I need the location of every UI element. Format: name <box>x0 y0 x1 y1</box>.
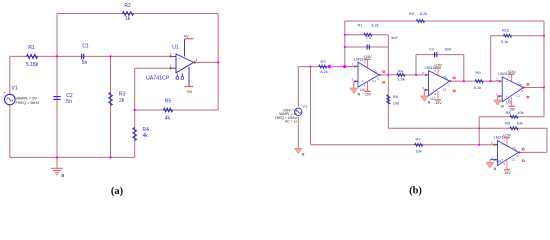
svg-text:C1: C1 <box>512 157 516 161</box>
svg-text:U1: U1 <box>172 45 179 51</box>
svg-text:5nF: 5nF <box>391 35 398 40</box>
svg-text:-15V: -15V <box>508 107 516 111</box>
svg-text:5n: 5n <box>82 60 88 66</box>
svg-text:10k: 10k <box>517 110 523 115</box>
svg-text:+15V: +15V <box>434 64 443 68</box>
svg-text:C2: C2 <box>66 93 73 99</box>
svg-text:C1: C1 <box>443 88 447 92</box>
svg-text:O: O <box>377 76 379 80</box>
svg-text:R9: R9 <box>476 70 481 75</box>
svg-text:(b): (b) <box>409 186 422 197</box>
svg-text:UA741CP: UA741CP <box>146 75 170 81</box>
svg-text:10k: 10k <box>393 100 399 105</box>
svg-text:R5: R5 <box>165 98 172 104</box>
svg-text:5.1k: 5.1k <box>474 85 481 90</box>
svg-text:R4: R4 <box>143 127 150 133</box>
svg-text:2k: 2k <box>119 98 125 104</box>
svg-text:8.2k: 8.2k <box>371 22 378 27</box>
svg-text:5.18k: 5.18k <box>26 62 39 68</box>
svg-text:5nF: 5nF <box>445 47 452 52</box>
svg-text:C1: C1 <box>516 94 520 98</box>
svg-text:R4: R4 <box>398 69 404 74</box>
svg-text:C2: C2 <box>512 146 516 150</box>
svg-text:AC = 1v: AC = 1v <box>285 120 297 124</box>
svg-text:9V: 9V <box>184 34 189 39</box>
svg-text:+15V: +15V <box>363 55 372 59</box>
svg-text:R2: R2 <box>124 3 131 9</box>
svg-text:8.2k: 8.2k <box>420 11 427 16</box>
svg-text:C2: C2 <box>443 75 447 79</box>
svg-text:8.2k: 8.2k <box>320 69 327 74</box>
svg-text:V1: V1 <box>12 85 18 91</box>
svg-text:-15V: -15V <box>503 171 511 175</box>
svg-text:5.1k: 5.1k <box>501 39 508 44</box>
svg-text:10k: 10k <box>415 149 421 154</box>
svg-text:O: O <box>447 83 449 87</box>
svg-text:-15V: -15V <box>434 101 442 105</box>
svg-text:O: O <box>521 89 523 93</box>
svg-text:R10: R10 <box>502 28 510 33</box>
svg-text:-9V: -9V <box>186 89 193 94</box>
svg-text:R1: R1 <box>358 22 363 27</box>
svg-text:C1: C1 <box>366 35 371 40</box>
svg-text:V1: V1 <box>303 104 308 109</box>
svg-text:R6: R6 <box>393 94 398 99</box>
svg-text:R3: R3 <box>321 59 326 64</box>
svg-text:R1: R1 <box>28 45 35 51</box>
svg-text:1k: 1k <box>125 16 131 22</box>
svg-text:4k: 4k <box>165 116 171 122</box>
svg-text:C2: C2 <box>429 47 434 52</box>
svg-text:C1: C1 <box>372 79 376 83</box>
svg-text:C2: C2 <box>516 81 520 85</box>
svg-text:(a): (a) <box>111 186 124 197</box>
svg-text:4k: 4k <box>143 133 149 139</box>
svg-text:C2: C2 <box>372 69 376 73</box>
svg-text:O: O <box>516 154 518 158</box>
svg-text:U2: U2 <box>431 96 436 101</box>
svg-text:C1: C1 <box>82 44 89 50</box>
svg-text:1.8k: 1.8k <box>397 77 404 82</box>
svg-text:VAMPL = 5V: VAMPL = 5V <box>16 96 38 100</box>
svg-text:+15V: +15V <box>508 70 517 74</box>
svg-text:U4: U4 <box>497 159 503 164</box>
svg-text:R3: R3 <box>119 91 126 97</box>
svg-text:R2: R2 <box>409 11 414 16</box>
svg-text:5n: 5n <box>66 99 72 105</box>
svg-text:+: + <box>4 91 6 95</box>
svg-text:R7: R7 <box>416 137 421 142</box>
svg-text:R5: R5 <box>505 120 510 125</box>
svg-text:FREQ = 5kHZ: FREQ = 5kHZ <box>16 101 41 105</box>
svg-text:-15V: -15V <box>364 93 372 97</box>
svg-text:U1: U1 <box>360 87 365 92</box>
svg-text:U3: U3 <box>506 100 511 105</box>
svg-text:+15V: +15V <box>503 134 512 138</box>
svg-text:10k: 10k <box>516 120 522 125</box>
